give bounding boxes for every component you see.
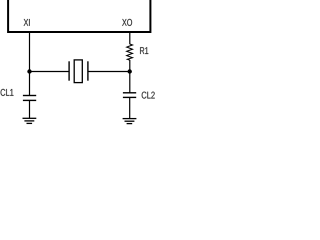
wire XO vertical upper (to R1) <box>129 33 131 44</box>
ground symbol right <box>123 119 137 124</box>
capacitor CL1 label <box>1 89 14 96</box>
wire CL1 to ground <box>29 100 31 118</box>
capacitor CL2 top plate <box>123 92 136 94</box>
junction node at XO/CL2 <box>128 69 132 73</box>
capacitor CL2 bottom plate <box>123 96 136 98</box>
capacitor CL2 label <box>142 92 155 99</box>
crystal Y1 right electrode <box>87 61 89 80</box>
crystal Y1 body <box>74 60 82 83</box>
wire CL2 to ground <box>129 97 131 118</box>
crystal Y1 left electrode <box>68 61 70 80</box>
junction node at XI/CL1 <box>27 69 31 73</box>
wire horizontal right (crystal to XO node) <box>88 71 130 73</box>
chip body edge (bottom of IC outline with XI/XO pins) <box>8 0 150 32</box>
capacitor CL1 top plate <box>23 95 36 97</box>
resistor R1 value label <box>140 47 148 54</box>
pin XO label <box>122 19 132 26</box>
capacitor CL1 bottom plate <box>23 99 36 101</box>
wire XI vertical <box>29 33 31 96</box>
ground symbol left <box>23 118 37 123</box>
wire horizontal left (XI node to crystal) <box>30 71 69 73</box>
pin XI label <box>24 19 30 26</box>
resistor R1 <box>127 44 133 60</box>
wire XO vertical lower (R1 to CL2) <box>129 60 131 93</box>
